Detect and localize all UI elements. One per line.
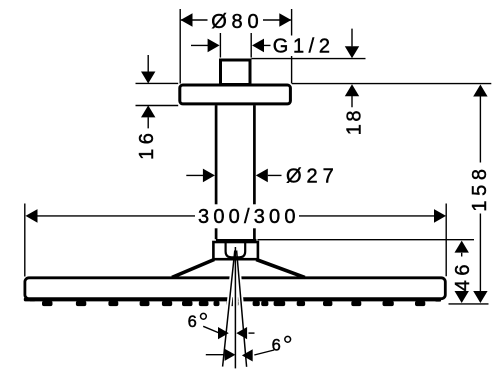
svg-text:Ø80: Ø80 [211,11,263,33]
svg-text:46: 46 [452,260,474,291]
svg-text:158: 158 [469,164,491,211]
svg-text:18: 18 [344,108,366,135]
svg-text:16: 16 [136,129,158,160]
svg-text:Ø27: Ø27 [286,166,339,188]
svg-text:300/300: 300/300 [198,206,300,228]
svg-text:6: 6 [188,313,197,331]
svg-text:G1/2: G1/2 [273,35,335,57]
svg-text:6: 6 [272,336,281,354]
